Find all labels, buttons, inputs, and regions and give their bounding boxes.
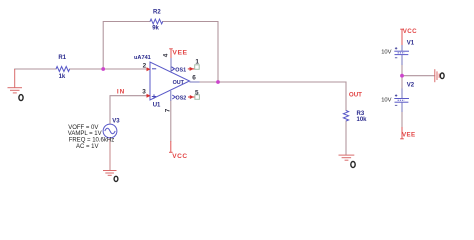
svg-text:VEE: VEE bbox=[402, 132, 415, 139]
svg-text:VOFF = 0V: VOFF = 0V bbox=[68, 125, 98, 131]
svg-text:V3: V3 bbox=[112, 118, 120, 124]
svg-text:10V: 10V bbox=[381, 50, 391, 56]
svg-text:OS2: OS2 bbox=[176, 96, 187, 102]
svg-text:IN: IN bbox=[117, 89, 125, 96]
svg-text:OUT: OUT bbox=[173, 80, 185, 86]
svg-text:FREQ = 10.6kHz: FREQ = 10.6kHz bbox=[69, 137, 115, 143]
svg-text:V2: V2 bbox=[407, 83, 415, 89]
svg-text:5: 5 bbox=[195, 90, 199, 97]
svg-text:9k: 9k bbox=[152, 26, 159, 32]
svg-text:7: 7 bbox=[165, 108, 172, 112]
svg-text:OS1: OS1 bbox=[175, 67, 186, 73]
svg-text:10k: 10k bbox=[357, 117, 368, 123]
svg-text:V1: V1 bbox=[407, 41, 415, 47]
svg-text:OUT: OUT bbox=[349, 91, 362, 98]
svg-text:VAMPL = 1V: VAMPL = 1V bbox=[68, 131, 102, 137]
svg-text:U1: U1 bbox=[153, 103, 161, 109]
svg-text:VCC: VCC bbox=[403, 28, 417, 35]
svg-text:4: 4 bbox=[163, 53, 170, 57]
svg-text:R2: R2 bbox=[153, 9, 161, 15]
svg-text:6: 6 bbox=[192, 75, 196, 82]
svg-text:VCC: VCC bbox=[172, 153, 187, 160]
svg-text:10V: 10V bbox=[381, 98, 391, 104]
svg-text:VEE: VEE bbox=[172, 50, 187, 57]
svg-text:uA741: uA741 bbox=[134, 55, 151, 61]
svg-text:2: 2 bbox=[143, 63, 147, 70]
svg-text:1: 1 bbox=[195, 59, 199, 66]
svg-text:R1: R1 bbox=[58, 55, 66, 61]
svg-text:1k: 1k bbox=[59, 74, 66, 80]
svg-text:AC = 1V: AC = 1V bbox=[76, 144, 99, 150]
svg-text:3: 3 bbox=[142, 89, 146, 96]
